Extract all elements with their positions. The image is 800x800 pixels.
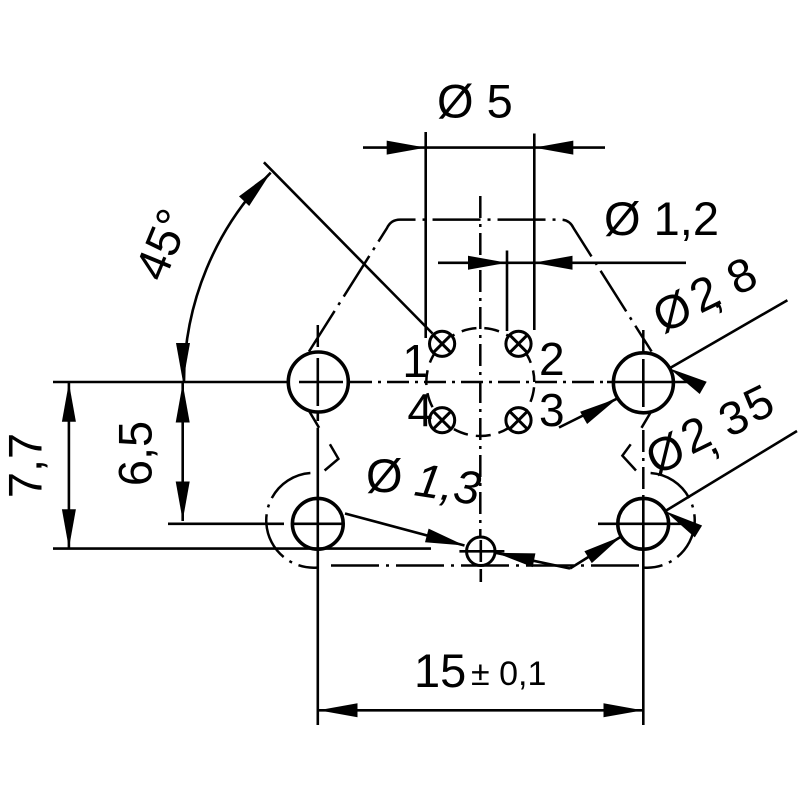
- svg-text:± 0,1: ± 0,1: [471, 655, 546, 693]
- svg-text:1: 1: [402, 335, 428, 387]
- svg-text:15: 15: [414, 644, 466, 697]
- svg-text:1,3: 1,3: [411, 453, 484, 516]
- svg-text:4: 4: [407, 384, 433, 436]
- svg-text:Ø 1,2: Ø 1,2: [604, 192, 719, 245]
- svg-text:Ø: Ø: [366, 449, 403, 502]
- svg-text:7,7: 7,7: [0, 433, 52, 498]
- svg-text:6,5: 6,5: [109, 421, 162, 486]
- svg-text:3: 3: [539, 384, 565, 436]
- svg-text:2: 2: [539, 333, 565, 385]
- svg-text:Ø 5: Ø 5: [437, 75, 513, 128]
